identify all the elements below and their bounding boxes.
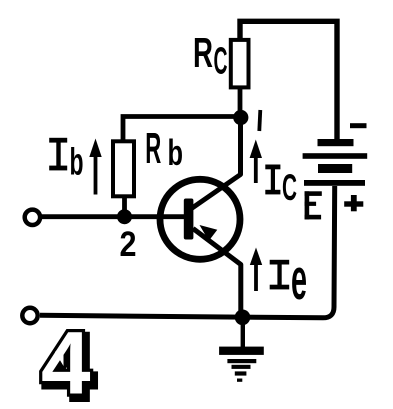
input terminal (bottom left)	[22, 308, 37, 323]
current arrow Ie	[250, 248, 262, 292]
transistor base bar	[184, 199, 194, 240]
wire Rb bottom to node 2	[122, 196, 127, 217]
svg-text:4: 4	[41, 313, 91, 409]
label Rb	[145, 124, 183, 173]
wire from Rb top to node 1	[123, 117, 240, 142]
input terminal (top left)	[25, 210, 40, 225]
label Ib	[49, 138, 83, 184]
minus sign	[350, 123, 367, 128]
node 1 junction dot	[233, 110, 248, 125]
bottom node junction dot	[235, 310, 251, 326]
svg-text:C: C	[214, 41, 228, 83]
label Rc	[193, 29, 228, 83]
battery E plate 1 (short, negative top)	[318, 139, 354, 146]
wire Rc bottom to node 1	[238, 87, 243, 117]
label 1 (tick)	[259, 110, 260, 131]
svg-text:2: 2	[120, 225, 137, 264]
emitter lead (diagonal + vertical to bottom node)	[193, 229, 241, 318]
transistor Q1 circle	[160, 179, 240, 259]
wire battery bottom to bottom rail	[40, 186, 335, 318]
resistor Rb	[113, 141, 134, 196]
svg-text:R: R	[193, 29, 213, 76]
battery E plate 4 (long, positive bottom)	[304, 180, 365, 186]
current arrow Ib	[89, 139, 101, 195]
svg-text:C: C	[282, 167, 297, 208]
figure number 4	[41, 313, 95, 409]
svg-text:e: e	[291, 247, 307, 312]
svg-text:R: R	[145, 124, 161, 173]
plus sign	[344, 195, 363, 211]
node 2 junction dot	[117, 209, 132, 224]
collector lead (diagonal + vertical to node 1)	[190, 117, 241, 210]
battery E plate 3 (short)	[318, 164, 352, 173]
label Ic	[265, 165, 297, 209]
ground	[219, 317, 264, 382]
resistor RC	[231, 40, 249, 88]
emitter arrowhead (points toward base, PNP style)	[200, 225, 218, 241]
label Ie	[270, 247, 307, 312]
label E	[305, 191, 322, 219]
battery E plate 2 (long)	[303, 153, 368, 159]
svg-text:b: b	[168, 132, 184, 173]
svg-text:b: b	[70, 142, 84, 184]
current arrow Ic	[250, 140, 262, 184]
base wire from input terminal to transistor base	[41, 214, 184, 219]
wire top rail from Rc top to battery positive terminal	[240, 21, 337, 140]
